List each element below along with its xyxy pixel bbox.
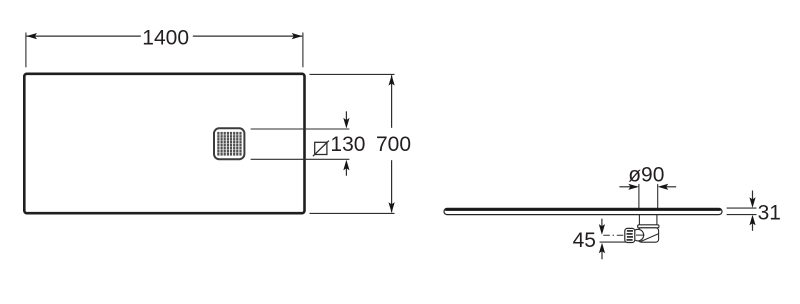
tray side-view profile xyxy=(444,208,722,214)
dimension 130 arrow top xyxy=(343,111,349,128)
dimension 31 arrow top xyxy=(749,191,755,208)
dimension o90 line and arrows xyxy=(619,184,676,190)
drain grate outline xyxy=(214,128,244,159)
dimension 31 arrow bottom xyxy=(749,215,755,231)
dimension 700 arrow bottom xyxy=(389,202,395,213)
dimension 700 line xyxy=(391,75,393,212)
drain pipe stub xyxy=(639,215,657,225)
svg-text:130: 130 xyxy=(330,133,365,156)
trap diagonal xyxy=(640,234,658,242)
dimension 45 arrow top xyxy=(599,219,605,235)
trap flange xyxy=(638,225,659,228)
square-side symbol xyxy=(313,141,329,157)
dimension 700 extension lines xyxy=(310,74,395,213)
outlet centerline xyxy=(603,234,625,236)
dimension o90 extension lines xyxy=(639,184,658,208)
dimension 1400 arrow right xyxy=(292,33,303,39)
dimension 45 lower extension line xyxy=(600,241,627,243)
svg-text:31: 31 xyxy=(758,201,781,224)
trap dome xyxy=(632,229,644,241)
svg-text:ø90: ø90 xyxy=(628,163,664,186)
svg-text:45: 45 xyxy=(573,229,596,252)
dimension 1400 extension lines xyxy=(26,33,303,68)
dimension 700 arrow top xyxy=(389,75,395,86)
drain grate slot breaks xyxy=(217,135,242,152)
trap axis short line xyxy=(636,234,644,236)
trap body xyxy=(638,228,658,242)
tray plan-view outline xyxy=(24,74,304,213)
dimension 130 extension lines xyxy=(251,129,350,159)
dimension 130 arrow bottom xyxy=(343,160,349,176)
dimension 1400 arrow left xyxy=(26,33,37,39)
drain grate slots xyxy=(218,132,240,156)
dimension 31 extension lines xyxy=(727,208,757,215)
svg-text:700: 700 xyxy=(376,133,411,156)
dimension 1400 line xyxy=(26,35,302,37)
dimension 45 arrow bottom xyxy=(599,243,605,260)
outlet ribs xyxy=(627,231,634,240)
svg-text:1400: 1400 xyxy=(142,26,189,49)
outlet connector xyxy=(625,228,635,242)
